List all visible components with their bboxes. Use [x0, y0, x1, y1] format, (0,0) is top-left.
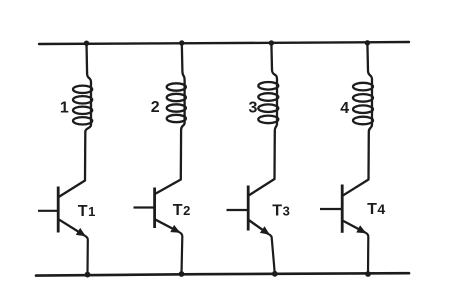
svg-text:T1: T1 [78, 203, 96, 220]
svg-text:1: 1 [60, 100, 69, 117]
svg-text:T3: T3 [272, 202, 290, 219]
svg-text:3: 3 [249, 99, 258, 116]
svg-text:T2: T2 [173, 202, 191, 219]
svg-text:2: 2 [151, 99, 160, 116]
svg-text:4: 4 [340, 100, 349, 117]
svg-text:T4: T4 [367, 201, 385, 218]
